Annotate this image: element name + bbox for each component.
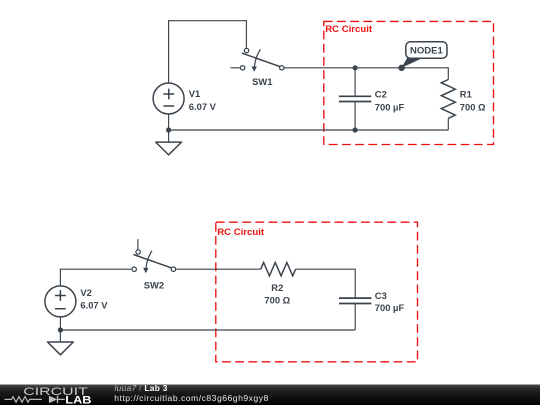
svg-text:SW2: SW2 xyxy=(144,280,164,291)
svg-text:6.07 V: 6.07 V xyxy=(189,101,217,112)
svg-text:C3: C3 xyxy=(375,290,387,301)
svg-text:6.07 V: 6.07 V xyxy=(80,299,108,310)
voltage source V2 xyxy=(45,286,108,317)
junction dot V2 bottom xyxy=(58,327,63,332)
svg-text:SW1: SW1 xyxy=(252,76,272,87)
svg-text:700 Ω: 700 Ω xyxy=(460,102,486,113)
footer bar xyxy=(0,385,540,405)
svg-text:V2: V2 xyxy=(80,287,91,298)
footer url xyxy=(114,393,269,403)
svg-text:luua7 / Lab 3: luua7 / Lab 3 xyxy=(115,383,168,393)
junction dot V1 bottom xyxy=(166,127,171,132)
capacitor C3 xyxy=(339,290,404,330)
svg-text:C2: C2 xyxy=(375,88,387,99)
CircuitLab logo wire-resistor-diode glyph xyxy=(5,396,65,403)
wire bottom rail bottom circuit xyxy=(60,329,355,331)
svg-text:V1: V1 xyxy=(189,88,200,99)
junction node dot NODE1 xyxy=(398,65,404,71)
CircuitLab logo text CIRCUIT xyxy=(23,386,88,398)
resistor R1 xyxy=(441,80,486,131)
svg-text:R1: R1 xyxy=(460,88,472,99)
svg-text:NODE1: NODE1 xyxy=(410,46,443,57)
switch SW1 xyxy=(231,48,284,87)
svg-text:RC Circuit: RC Circuit xyxy=(217,227,265,238)
wire to ground (top circuit) xyxy=(168,130,170,142)
voltage source V1 xyxy=(153,83,217,114)
annotation box RC Circuit (top) xyxy=(324,21,494,144)
wire SW1 to R1 top xyxy=(284,68,448,80)
wire V2 top to switch SW2 xyxy=(60,269,131,286)
ground (top circuit) xyxy=(156,142,182,155)
annotation box RC Circuit (bottom) xyxy=(216,222,418,362)
svg-text:RC Circuit: RC Circuit xyxy=(325,24,373,35)
resistor R2 xyxy=(261,263,296,306)
switch SW2 xyxy=(132,239,176,290)
wire V1 bottom lead xyxy=(168,114,170,130)
svg-text:LAB: LAB xyxy=(65,394,91,405)
svg-text:R2: R2 xyxy=(271,282,283,293)
junction dot C2 top xyxy=(353,65,358,70)
wire V1 top to switch SW1 xyxy=(169,21,247,83)
wire V2 bottom lead xyxy=(59,317,61,330)
svg-text:700 µF: 700 µF xyxy=(375,102,405,113)
wire SW2 to R2 xyxy=(176,268,261,270)
ground (bottom circuit) xyxy=(48,342,74,355)
CircuitLab logo text LAB xyxy=(65,394,91,405)
svg-text:700 Ω: 700 Ω xyxy=(264,294,290,305)
wire to ground (bottom circuit) xyxy=(59,330,61,342)
node NODE1 flag xyxy=(402,42,447,68)
wire R2 to C3 top xyxy=(296,269,356,298)
svg-text:http://circuitlab.com/c83g66gh: http://circuitlab.com/c83g66gh9xgy8 xyxy=(114,393,269,403)
wire bottom rail top circuit xyxy=(169,129,449,131)
footer title luua7 / Lab 3 xyxy=(115,383,168,393)
svg-text:700 µF: 700 µF xyxy=(375,302,405,313)
capacitor C2 xyxy=(339,68,405,130)
junction dot C2 bottom xyxy=(353,127,358,132)
